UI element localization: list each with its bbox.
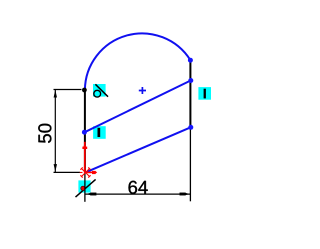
- endpoint dot upper diagonal right: [188, 78, 193, 83]
- tangent relation icon: [93, 84, 108, 97]
- dimension 64 extension line right: [189, 129, 191, 201]
- origin star: [80, 167, 92, 177]
- dimension 50 arrow top: [54, 90, 57, 98]
- dimension 64 arrow right: [180, 193, 190, 196]
- vertical relation icon (right line): [198, 87, 211, 100]
- endpoint dot upper diagonal left: [82, 130, 87, 135]
- arc center mark: [139, 87, 146, 94]
- dimension 50 line: [54, 90, 56, 173]
- coincident relation icon (origin): [76, 179, 96, 197]
- left vertical sketch line: [84, 90, 86, 173]
- right vertical sketch line: [189, 60, 191, 127]
- upper diagonal line: [84, 81, 190, 133]
- dimension 64 arrow left: [86, 193, 96, 196]
- endpoint dot lower diagonal right: [188, 125, 193, 130]
- dimension 50 extension line top: [54, 89, 82, 91]
- dimension 64 text: [129, 181, 148, 194]
- origin Y axis: [82, 142, 87, 173]
- lower diagonal line: [86, 127, 191, 172]
- dimension 50 text: [38, 124, 51, 143]
- dimension 64 extension line left: [84, 173, 86, 202]
- dimension 50 arrow bottom: [54, 164, 57, 172]
- endpoint dot arc right: [188, 58, 193, 63]
- dimension 50 extension line bottom: [54, 171, 81, 173]
- origin X axis: [86, 171, 98, 174]
- dimension 64 line: [85, 193, 190, 195]
- vertical relation icon (left line): [93, 126, 106, 139]
- arc: [85, 33, 190, 90]
- endpoint dot arc left (black): [82, 88, 87, 93]
